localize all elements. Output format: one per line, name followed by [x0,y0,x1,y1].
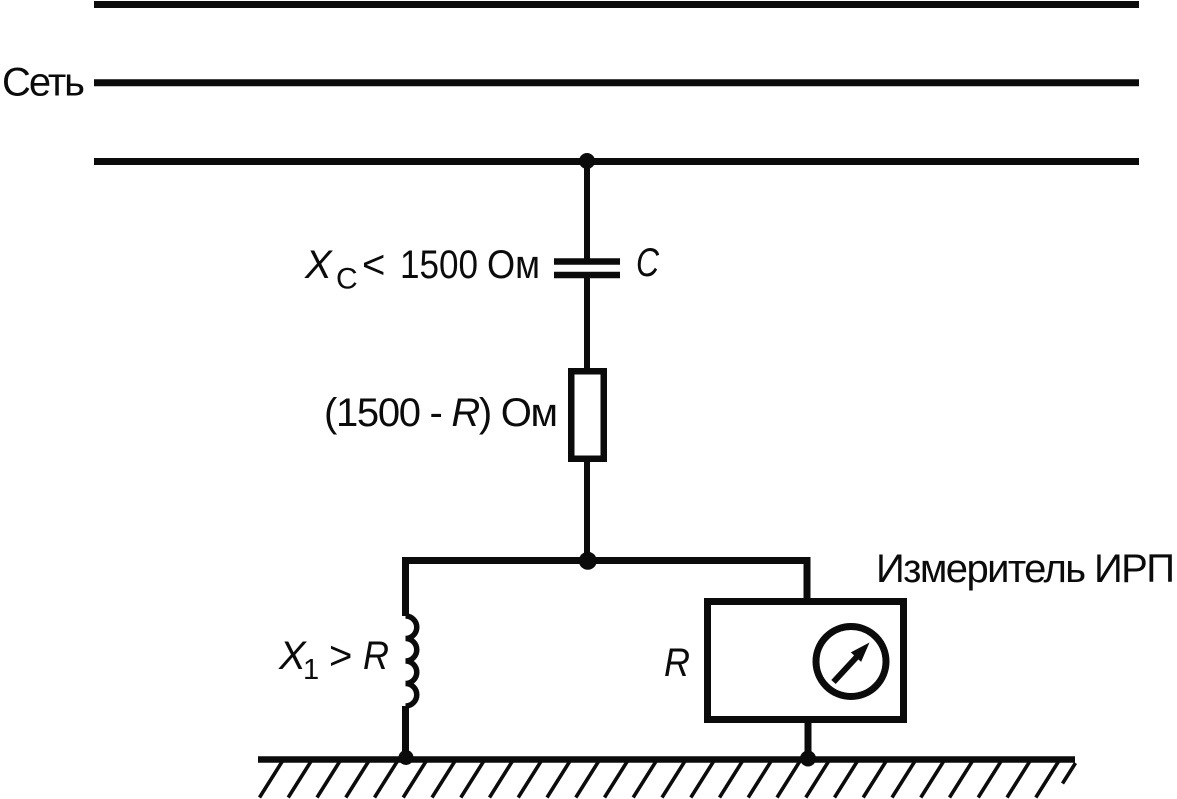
svg-text:Измеритель ИРП: Измеритель ИРП [876,547,1175,591]
svg-text:(1500 - R) Ом: (1500 - R) Ом [324,391,558,435]
svg-text:R: R [664,641,690,685]
svg-text:C: C [636,241,660,285]
svg-text:<: < [362,243,385,287]
svg-text:X: X [304,243,333,287]
svg-text:Сеть: Сеть [2,61,85,105]
svg-text:R: R [363,634,389,678]
svg-text:C: C [336,263,358,296]
svg-text:Ом: Ом [487,243,540,287]
svg-text:1: 1 [303,654,319,686]
svg-text:>: > [329,634,352,678]
svg-text:1500: 1500 [400,243,478,287]
